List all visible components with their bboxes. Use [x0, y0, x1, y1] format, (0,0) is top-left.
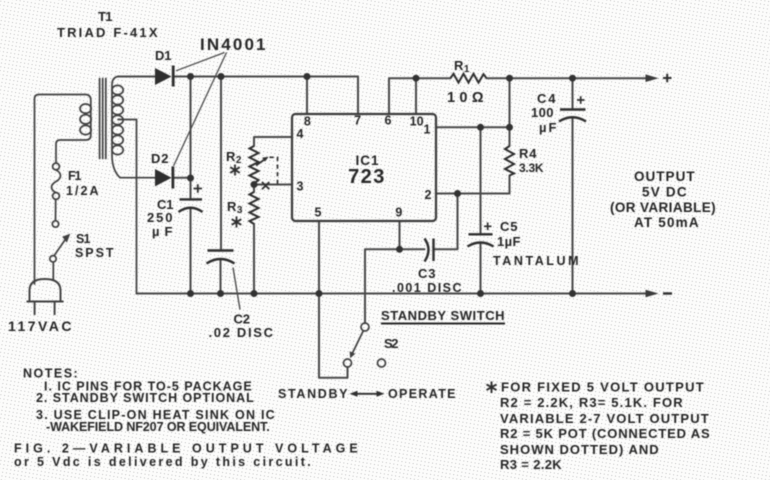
plug 117VAC	[27, 279, 64, 315]
svg-text:S1: S1	[76, 232, 91, 246]
wire pin 4 to R2 top	[254, 137, 292, 146]
node pin 5 on rail	[316, 290, 323, 297]
arrow STANDBY-OPERATE double	[354, 393, 380, 395]
node pin1-C5 branch	[477, 124, 484, 131]
capacitor C3	[425, 239, 434, 262]
svg-text:.02 DISC: .02 DISC	[209, 325, 274, 340]
svg-text:C3: C3	[418, 266, 436, 281]
node pin1-R4 corner	[506, 124, 513, 131]
svg-text:R4: R4	[519, 146, 537, 161]
C4 plus	[577, 96, 585, 104]
svg-text:µF: µF	[539, 120, 557, 135]
wire pin 1 horizontal	[436, 126, 510, 128]
IC pin number labels	[297, 114, 432, 220]
svg-text:5V DC: 5V DC	[642, 185, 687, 200]
svg-text:F1: F1	[68, 169, 82, 183]
svg-text:723: 723	[348, 166, 386, 188]
svg-text:2. STANDBY SWITCH OPTIONAL: 2. STANDBY SWITCH OPTIONAL	[36, 391, 254, 405]
wire C4 leads	[572, 78, 574, 293]
svg-text:S2: S2	[384, 336, 399, 351]
wire pin 5 drop through rail to S2 return	[319, 221, 348, 378]
svg-text:STANDBY SWITCH: STANDBY SWITCH	[381, 308, 505, 323]
svg-text:7: 7	[354, 114, 361, 128]
diode D1	[155, 66, 173, 87]
svg-text:117VAC: 117VAC	[8, 318, 72, 334]
asterisk mark right note	[487, 382, 497, 394]
fuse F1	[52, 163, 61, 220]
svg-text:OUTPUT: OUTPUT	[634, 169, 695, 184]
svg-text:T1: T1	[98, 9, 113, 24]
svg-text:10Ω: 10Ω	[447, 90, 484, 106]
svg-text:4: 4	[297, 127, 304, 141]
R2 wiper dashed link	[270, 157, 278, 184]
node C5 bottom on rail	[477, 290, 484, 297]
wire D1-D2 cathode link	[190, 77, 192, 179]
node C2 bottom on rail	[217, 290, 224, 297]
potentiometer R2	[250, 146, 259, 184]
wire pin 6 to pin 10 top segment and to R1	[389, 78, 451, 114]
svg-text:-WAKEFIELD NF207 OR EQUIVALENT: -WAKEFIELD NF207 OR EQUIVALENT.	[46, 420, 270, 434]
svg-text:(OR VARIABLE): (OR VARIABLE)	[610, 200, 716, 215]
svg-text:AT 50mA: AT 50mA	[634, 215, 699, 230]
svg-text:FIG. 2—VARIABLE OUTPUT VOLTAGE: FIG. 2—VARIABLE OUTPUT VOLTAGE	[14, 442, 358, 456]
capacitor C2	[207, 251, 235, 264]
IC U1 : IC1 723 regulator box	[292, 114, 436, 221]
wire pin 2 horizontal	[436, 193, 510, 195]
asterisk mark for R2	[230, 165, 240, 176]
svg-text:250: 250	[147, 210, 173, 225]
resistor R4	[505, 146, 514, 176]
svg-text:10: 10	[410, 115, 424, 129]
svg-text:5: 5	[315, 206, 322, 220]
svg-text:D2: D2	[151, 151, 169, 166]
node C2 top on rail	[218, 73, 225, 80]
capacitor C4	[559, 110, 586, 122]
junction dots	[187, 73, 576, 297]
node C4 top on rail	[569, 75, 576, 82]
capacitor C5	[468, 234, 494, 246]
svg-text:SHOWN DOTTED) AND: SHOWN DOTTED) AND	[500, 442, 659, 457]
svg-text:NOTES:: NOTES:	[23, 367, 78, 381]
C5 plus	[484, 223, 492, 231]
node R2-R3 junction	[251, 181, 258, 188]
note text block right	[500, 380, 710, 473]
wire pin 9 drop to C3 node	[400, 221, 425, 249]
svg-text:.001 DISC: .001 DISC	[392, 281, 462, 295]
STANDBY SWITCH underline	[381, 323, 505, 325]
node C1 bottom on rail	[187, 290, 194, 297]
svg-text:VARIABLE 2-7 VOLT OUTPUT: VARIABLE 2-7 VOLT OUTPUT	[500, 411, 709, 426]
node pin 9 / C3 left	[396, 246, 403, 253]
wire right positive rail after R1	[487, 77, 649, 79]
node pin 8 on rail	[304, 73, 311, 80]
output text block	[610, 169, 716, 230]
svg-text:3: 3	[297, 180, 304, 194]
wire D2 cathode to node	[173, 177, 191, 179]
wire pin 3 from R2/R3 node	[254, 184, 292, 193]
node R1 right / R4 top	[506, 75, 513, 82]
switch S2	[344, 323, 386, 367]
svg-text:9: 9	[395, 206, 402, 220]
svg-text:FOR FIXED 5 VOLT OUTPUT: FOR FIXED 5 VOLT OUTPUT	[501, 380, 704, 395]
wire C2 leads	[220, 77, 223, 294]
node X mark on pin3 wire	[262, 182, 269, 189]
svg-text:1/2A: 1/2A	[66, 184, 99, 198]
svg-text:1µF: 1µF	[497, 234, 521, 249]
node pin2-C3 branch	[454, 190, 461, 197]
svg-text:1: 1	[424, 123, 431, 137]
wire pin 8 drop	[306, 77, 308, 115]
svg-text:2: 2	[425, 188, 432, 202]
svg-text:6: 6	[385, 114, 392, 128]
wire C3 node left and down to S2	[365, 249, 400, 323]
svg-text:3.3K: 3.3K	[519, 161, 544, 175]
capacitor C1	[179, 199, 203, 212]
wire C1 leads	[190, 178, 192, 294]
S2 arrowhead	[350, 351, 356, 358]
transformer T1	[35, 77, 156, 294]
node C4 bottom on rail	[569, 290, 576, 297]
output arrow +	[646, 74, 659, 82]
svg-text:100: 100	[531, 105, 554, 120]
svg-text:D1: D1	[155, 48, 172, 63]
node R3 bottom on rail	[251, 290, 258, 297]
wire top rail from secondary to D1 anode and on to pin 7 bend	[118, 77, 358, 115]
output arrow -	[646, 290, 659, 298]
wire pin2 junction down-left to C3	[434, 194, 458, 250]
svg-text:R2 = 2.2K, R3= 5.1K. FOR: R2 = 2.2K, R3= 5.1K. FOR	[500, 395, 683, 410]
wire bottom ground rail	[137, 293, 649, 295]
svg-text:R3 = 2.2K: R3 = 2.2K	[500, 457, 562, 472]
S1 arrowhead	[62, 234, 70, 243]
svg-text:C5: C5	[500, 219, 518, 234]
switch S1	[50, 221, 66, 281]
C1 plus	[194, 184, 203, 192]
IN4001 pointer lines	[174, 53, 227, 167]
resistor R1	[451, 74, 487, 83]
asterisk mark for R3	[232, 217, 242, 228]
svg-text:TRIAD F-41X: TRIAD F-41X	[57, 25, 158, 40]
diode D2	[155, 167, 173, 189]
node D2 cathode / C1 top	[187, 175, 194, 182]
svg-text:C4: C4	[537, 91, 556, 106]
core	[100, 79, 106, 159]
svg-text:OPERATE: OPERATE	[388, 387, 456, 401]
wire center tap	[118, 120, 137, 294]
R2 wiper arrow	[256, 160, 265, 166]
resistor R3	[250, 192, 259, 224]
wire C5 bottom lead	[480, 243, 482, 294]
C2 pointer line	[233, 268, 240, 310]
wire C5 branch vertical	[480, 127, 482, 234]
secondary winding	[112, 77, 155, 178]
primary winding	[35, 95, 91, 285]
node D1 cathode / link top	[187, 73, 194, 80]
wire R4 branch vertical	[509, 78, 511, 193]
svg-text:R2 = 5K POT (CONNECTED AS: R2 = 5K POT (CONNECTED AS	[500, 426, 710, 441]
node pin 10 / R1	[413, 75, 420, 82]
svg-text:IN4001: IN4001	[200, 35, 266, 54]
wire R3 bottom to rail	[253, 224, 255, 294]
notes text block left	[14, 367, 358, 470]
svg-text:8: 8	[304, 115, 311, 129]
svg-text:STANDBY: STANDBY	[278, 387, 348, 401]
